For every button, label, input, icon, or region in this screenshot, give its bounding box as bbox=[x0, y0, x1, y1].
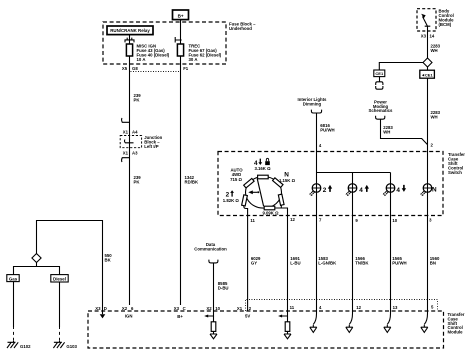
module internal driver to ground (4LO lamp) bbox=[384, 311, 391, 332]
svg-text:G103: G103 bbox=[66, 344, 77, 349]
pin X2 6 IGN (module) bbox=[122, 306, 134, 319]
label 1560 BN bbox=[430, 256, 440, 265]
indicator lamp 2HI bbox=[309, 184, 321, 196]
svg-text:PU/WH: PU/WH bbox=[320, 127, 334, 132]
svg-text:RD/BK: RD/BK bbox=[185, 179, 200, 184]
svg-text:D: D bbox=[104, 306, 107, 311]
module internal driver to ground (4HI lamp) bbox=[346, 311, 353, 332]
in-line connector CE1 box (main run) bbox=[420, 67, 435, 78]
svg-text:D-BU: D-BU bbox=[218, 285, 229, 290]
svg-text:4: 4 bbox=[359, 187, 363, 194]
pin X1 2 5V (module) bbox=[237, 306, 252, 319]
label Fuse Block - Underhood bbox=[229, 21, 256, 30]
label Transfer Case Shift Control Switch bbox=[448, 152, 465, 175]
wire B+ feed down to TREC fuse and module pin X3 C (1342 RD/BK) bbox=[180, 20, 182, 305]
svg-text:BK: BK bbox=[105, 257, 112, 262]
wire splice to Gas and Diesel branches bbox=[14, 263, 60, 275]
svg-text:L-BU: L-BU bbox=[290, 260, 300, 265]
label 2HI lamp bbox=[323, 185, 332, 194]
fuse block underhood dashed box bbox=[103, 22, 226, 64]
svg-text:1.15K Ω: 1.15K Ω bbox=[279, 178, 296, 183]
BCM internal driver symbol bbox=[421, 14, 430, 31]
svg-text:4: 4 bbox=[319, 143, 322, 148]
svg-text:X5: X5 bbox=[122, 66, 128, 71]
rotary resistor lower-right bbox=[278, 194, 284, 205]
label 1566 TN/BK bbox=[355, 256, 369, 265]
label 6816 PU/WH bbox=[320, 123, 334, 132]
transfer case shift control module dashed box bbox=[88, 311, 444, 348]
rotary exit wire to pin 11 (6029 GY) bbox=[244, 205, 248, 311]
svg-text:WH: WH bbox=[431, 114, 438, 119]
module internal driver to ground (2HI lamp) bbox=[310, 311, 317, 332]
label 239 PK (lower) bbox=[134, 175, 142, 184]
wire 2283 WH from BCM to splice bbox=[427, 31, 429, 58]
svg-text:PK: PK bbox=[134, 97, 141, 102]
svg-text:Underhood: Underhood bbox=[229, 26, 252, 31]
pin X3 C B+ (module) bbox=[174, 306, 186, 319]
svg-text:5: 5 bbox=[431, 305, 434, 310]
svg-text:Diesel: Diesel bbox=[53, 277, 66, 282]
svg-text:PK: PK bbox=[134, 179, 141, 184]
svg-text:3: 3 bbox=[429, 217, 432, 222]
label 1565 PU/WH bbox=[392, 256, 406, 265]
connector CE1 box (to power moding) bbox=[374, 70, 385, 77]
connector X1 dotted bracket (module) bbox=[246, 300, 438, 312]
pin X3 D (module) bbox=[95, 306, 107, 311]
svg-text:X3: X3 bbox=[421, 33, 427, 38]
connector X1 A4 bbox=[122, 118, 139, 134]
svg-text:A3: A3 bbox=[132, 150, 138, 155]
label AUTO 4WD 715 ohm bbox=[230, 167, 243, 182]
splice diamond (ground branch) bbox=[32, 254, 41, 263]
off-page break symbol under CE1 bbox=[376, 77, 383, 90]
indicator lamp 4LO bbox=[383, 184, 395, 196]
rotary selector ring bbox=[246, 177, 282, 209]
label 6029 GY bbox=[251, 256, 261, 265]
module internal: arrow, resistor, ground (switch sense) bbox=[278, 311, 291, 339]
svg-text:RUN/CRANK Relay: RUN/CRANK Relay bbox=[110, 28, 150, 33]
svg-text:14: 14 bbox=[430, 33, 435, 38]
splice diamond 2283 bbox=[423, 58, 432, 67]
svg-text:2: 2 bbox=[323, 187, 327, 194]
label 2-high 1.82K ohm bbox=[223, 190, 240, 203]
svg-text:BN: BN bbox=[430, 260, 436, 265]
svg-text:9.09K Ω: 9.09K Ω bbox=[262, 211, 279, 216]
pin X3 14 (BCM) bbox=[421, 33, 435, 38]
wire lamp 4HI down (1566 TN/BK) bbox=[352, 184, 354, 311]
svg-text:30 A: 30 A bbox=[189, 57, 198, 62]
label 4HI lamp bbox=[359, 185, 369, 194]
transfer case shift control switch dashed box bbox=[218, 152, 443, 216]
fuse TREC bbox=[177, 44, 183, 56]
svg-text:3.16K Ω: 3.16K Ω bbox=[254, 166, 271, 171]
label 8585 D-BU bbox=[218, 281, 229, 290]
svg-text:10: 10 bbox=[392, 218, 397, 223]
label 2283 WH (lower) bbox=[431, 110, 441, 119]
svg-text:13: 13 bbox=[393, 305, 398, 310]
wire lamp 4LO down (1565 PU/WH) bbox=[390, 184, 392, 311]
rotary wiper arrow bbox=[248, 190, 259, 194]
label 4LO lamp bbox=[396, 185, 406, 194]
rotary resistor lower-left bbox=[242, 195, 248, 206]
svg-text:9: 9 bbox=[355, 218, 358, 223]
svg-text:CE1: CE1 bbox=[425, 73, 434, 78]
ground G102 bbox=[7, 341, 31, 349]
label 1583 L-GN/BK bbox=[318, 256, 337, 265]
svg-text:WH: WH bbox=[431, 48, 438, 53]
svg-text:715 Ω: 715 Ω bbox=[230, 177, 242, 182]
svg-text:12: 12 bbox=[356, 305, 361, 310]
svg-text:N: N bbox=[432, 187, 437, 194]
svg-text:Module: Module bbox=[448, 330, 464, 335]
label MISC IGN fuse bbox=[137, 44, 170, 62]
B+ supply box bbox=[173, 10, 189, 20]
svg-text:CE1: CE1 bbox=[375, 71, 384, 76]
off-page bracket Interior Lights Dimming bbox=[311, 110, 321, 113]
relay contact (TREC side) bbox=[175, 37, 182, 43]
label 1691 L-BU bbox=[290, 256, 300, 265]
wire 6816 PU/WH down to switch pin 4 and lamp feed (1583 below) bbox=[316, 113, 318, 311]
svg-text:Gas: Gas bbox=[9, 276, 18, 281]
svg-text:Switch: Switch bbox=[448, 170, 462, 175]
RUN/CRANK relay box bbox=[107, 26, 153, 35]
svg-text:Communication: Communication bbox=[194, 246, 227, 251]
svg-text:Dimming: Dimming bbox=[303, 101, 322, 106]
label 239 PK (upper) bbox=[134, 93, 142, 102]
wire MISC IGN fuse down to module pin X2 6 (239 PK) bbox=[129, 35, 131, 306]
indicator lamp 4HI bbox=[346, 184, 357, 196]
pin X2 10 (module) bbox=[206, 306, 220, 311]
svg-text:6: 6 bbox=[131, 306, 134, 311]
svg-text:2: 2 bbox=[249, 306, 252, 311]
label 2283 WH (upper) bbox=[431, 44, 441, 53]
label Power Moding Schematics bbox=[369, 99, 393, 113]
label 550 BK bbox=[105, 253, 113, 262]
svg-text:4: 4 bbox=[319, 305, 322, 310]
rotary resistor bottom (9.09K) bbox=[264, 206, 275, 210]
wire 550 BK from module pin X3 D up and over to splice bbox=[37, 221, 103, 312]
svg-text:1.82K Ω: 1.82K Ω bbox=[223, 198, 240, 203]
svg-text:(BCM): (BCM) bbox=[439, 22, 452, 27]
label 1342 RD/BK bbox=[185, 175, 200, 184]
svg-text:2: 2 bbox=[431, 143, 434, 148]
svg-text:Left I/P: Left I/P bbox=[144, 144, 158, 149]
svg-text:X1: X1 bbox=[123, 150, 129, 155]
label Interior Lights Dimming bbox=[298, 97, 327, 106]
svg-text:A4: A4 bbox=[132, 129, 138, 134]
svg-text:12: 12 bbox=[290, 217, 295, 222]
module internal: arrow, resistor, ground (serial data 8585) bbox=[204, 311, 217, 339]
fuse MISC IGN bbox=[126, 44, 132, 56]
junction block dashed box bbox=[120, 136, 141, 148]
pin X5 G8 bbox=[122, 66, 138, 71]
module internal driver to ground (N lamp) bbox=[421, 311, 428, 332]
svg-text:C: C bbox=[183, 306, 186, 311]
svg-text:IGN: IGN bbox=[125, 314, 133, 319]
indicator lamp N bbox=[420, 184, 432, 196]
rotary resistor top (3.16K) bbox=[258, 175, 269, 179]
wire Gas box to ground G102 bbox=[13, 282, 15, 327]
rotary exit wire to pin 12 (1691 L-BU) bbox=[275, 205, 288, 312]
label Body Control Module (BCM) bbox=[439, 9, 455, 27]
off-page bracket Data Communication bbox=[209, 260, 218, 263]
svg-text:GY: GY bbox=[251, 260, 257, 265]
connector X1 A3 bbox=[122, 150, 139, 162]
svg-text:11: 11 bbox=[250, 218, 255, 223]
rotary resistor upper-right bbox=[273, 178, 283, 188]
rotary resistor upper-left bbox=[244, 178, 254, 188]
svg-text:WH: WH bbox=[383, 129, 390, 134]
svg-text:L-GN/BK: L-GN/BK bbox=[318, 260, 337, 265]
Diesel box bbox=[51, 275, 68, 282]
svg-text:X2: X2 bbox=[206, 306, 212, 311]
svg-text:X2: X2 bbox=[122, 306, 128, 311]
svg-text:5V: 5V bbox=[245, 314, 250, 319]
svg-text:G8: G8 bbox=[132, 66, 138, 71]
svg-text:B+: B+ bbox=[178, 13, 184, 18]
relay contact (MISC IGN side) bbox=[125, 38, 134, 43]
label 2283 WH (power moding branch) bbox=[383, 125, 393, 134]
svg-text:10 A: 10 A bbox=[137, 57, 146, 62]
svg-text:TN/BK: TN/BK bbox=[355, 260, 369, 265]
wire 8585 D-BU bbox=[213, 263, 215, 311]
svg-text:B+: B+ bbox=[177, 314, 183, 319]
svg-text:F1: F1 bbox=[183, 66, 189, 71]
svg-text:X1: X1 bbox=[237, 306, 243, 311]
wire Diesel box to ground G103 bbox=[59, 282, 61, 327]
label Transfer Case Shift Control Module bbox=[448, 312, 465, 335]
wire splice left branch to CE1 bbox=[379, 63, 423, 71]
svg-text:4: 4 bbox=[396, 187, 400, 194]
rotary wiper arm bbox=[257, 179, 263, 207]
connector dotted bracket under fuse block bbox=[130, 65, 181, 72]
label Data Communication bbox=[194, 242, 227, 251]
label Junction Block - Left I/P bbox=[144, 135, 162, 149]
off-page bracket below Power Moding bbox=[376, 116, 385, 120]
svg-text:Schematics: Schematics bbox=[369, 108, 393, 113]
svg-text:G102: G102 bbox=[20, 344, 31, 349]
svg-text:11: 11 bbox=[290, 305, 295, 310]
lamp bus wire bbox=[317, 173, 391, 185]
svg-text:X1: X1 bbox=[123, 129, 129, 134]
Body Control Module dashed box bbox=[417, 9, 436, 31]
label 4-low with padlock bbox=[254, 158, 270, 167]
wire 2283 WH from power moding joining main run bbox=[381, 119, 428, 144]
svg-text:X3: X3 bbox=[95, 306, 101, 311]
Gas box bbox=[7, 275, 19, 282]
svg-text:X3: X3 bbox=[174, 306, 180, 311]
ground G103 bbox=[53, 341, 77, 349]
ground inside module below pin D bbox=[100, 311, 106, 318]
svg-text:10: 10 bbox=[215, 306, 220, 311]
wire 2283 WH down to switch pin 2 and module pin 5 (1560 BN below) bbox=[427, 78, 429, 311]
label N 1.15K ohm bbox=[279, 172, 296, 183]
svg-text:7: 7 bbox=[319, 217, 322, 222]
svg-text:PU/WH: PU/WH bbox=[392, 260, 406, 265]
label TREC fuse bbox=[189, 44, 222, 62]
